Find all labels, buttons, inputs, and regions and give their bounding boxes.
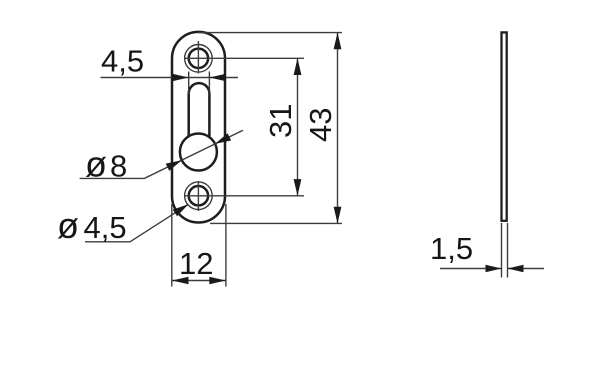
arrowhead 43 top xyxy=(334,33,342,50)
svg-text:4,5: 4,5 xyxy=(101,44,144,79)
svg-text:ø: ø xyxy=(57,205,79,246)
svg-text:1,5: 1,5 xyxy=(430,231,473,266)
arrowhead 12 right xyxy=(209,277,226,285)
keyhole circle dia 8 xyxy=(180,134,217,171)
svg-text:ø: ø xyxy=(85,144,107,185)
top hole horizontal centerline / extension line for 31 xyxy=(184,57,304,59)
extension line side view left xyxy=(501,223,503,278)
arrowhead dia8 lower-left xyxy=(166,160,182,171)
top hole inner circle (dia 4,5) xyxy=(189,49,208,68)
plate outline (front view stadium shape) xyxy=(172,32,225,223)
dimension line 4,5 (slot width) xyxy=(101,77,239,79)
arrowhead 1,5 left xyxy=(486,265,502,273)
arrowhead 43 bottom xyxy=(334,207,342,224)
extension line 12 right xyxy=(225,204,227,287)
keyhole slot (rounded top, width 4,5) xyxy=(189,83,210,137)
svg-text:12: 12 xyxy=(179,246,213,281)
top hole vertical centerline xyxy=(197,41,199,74)
leader line dia 4,5 xyxy=(85,204,188,242)
arrowhead dia8 upper-right xyxy=(215,133,231,144)
dimension line 12 xyxy=(172,280,226,282)
side view plate (thickness 1,5) xyxy=(502,32,507,220)
leader line dia 8 xyxy=(80,130,243,178)
bottom hole horizontal centerline / extension line for 31 xyxy=(184,195,304,197)
arrowhead 4,5 left xyxy=(172,74,189,82)
bottom hole inner circle (dia 4,5) xyxy=(189,186,208,205)
extension line slot left edge xyxy=(188,72,190,95)
arrowhead 12 left xyxy=(172,277,189,285)
arrowhead 4,5 right xyxy=(209,74,226,82)
svg-text:31: 31 xyxy=(263,103,298,137)
extension line 12 left xyxy=(171,204,173,287)
bottom hole vertical centerline xyxy=(197,181,199,211)
extension line plate top (for 43) xyxy=(198,32,342,34)
bottom hole outer circle (countersink) xyxy=(185,182,213,210)
svg-text:8: 8 xyxy=(110,149,127,184)
dimension line 1,5 left part xyxy=(440,268,502,270)
arrowhead 31 top xyxy=(294,58,302,75)
dimension line 43 xyxy=(337,33,339,224)
extension line plate bottom (for 43) xyxy=(210,222,342,224)
arrowhead 1,5 right xyxy=(508,265,524,273)
arrowhead dia 4,5 leader xyxy=(173,204,189,216)
arrowhead 31 bottom xyxy=(294,179,302,196)
svg-text:4,5: 4,5 xyxy=(84,210,127,245)
extension line slot right edge xyxy=(208,72,210,95)
dimension line 1,5 right part xyxy=(508,268,545,270)
top hole outer circle (countersink) xyxy=(185,45,213,73)
extension line side view right xyxy=(507,223,509,278)
dimension line 31 xyxy=(297,58,299,196)
svg-text:43: 43 xyxy=(303,107,338,141)
